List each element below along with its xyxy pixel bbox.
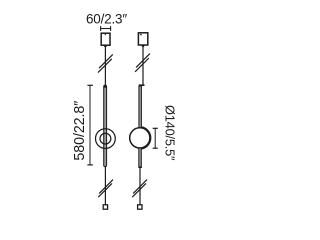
svg-text:580/22.8″: 580/22.8″ bbox=[72, 101, 88, 161]
svg-text:Ø140/5.5″: Ø140/5.5″ bbox=[162, 105, 177, 161]
svg-text:60/2.3″: 60/2.3″ bbox=[86, 12, 127, 27]
